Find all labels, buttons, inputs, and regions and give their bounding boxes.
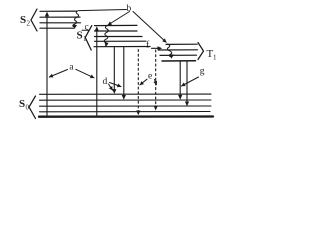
S0 label [19, 98, 30, 112]
e pointer arrow to e2 [155, 80, 157, 85]
d pointer arrow to d1 [109, 84, 113, 90]
phosphorescence arrow g2 [185, 62, 189, 107]
vibrational relaxation squiggle in S1 [104, 26, 108, 47]
svg-text:e: e [148, 72, 152, 82]
S2 brace [31, 9, 37, 31]
g label [200, 67, 205, 77]
S1 brace [85, 26, 92, 50]
T1 label [207, 48, 218, 62]
S0 brace [29, 96, 36, 119]
svg-text:S: S [19, 98, 25, 110]
a pointer arrow to arrow a2 [76, 69, 94, 78]
a label [69, 63, 74, 73]
svg-text:2: 2 [27, 20, 31, 28]
phosphorescence arrow g1 [178, 62, 182, 100]
b pointer arrow to S1 squiggle [108, 12, 130, 26]
S1 level lines [94, 25, 150, 46]
b pointer line to S2 squiggle [79, 10, 127, 11]
svg-text:d: d [103, 77, 108, 87]
S0 ground thick line [39, 115, 213, 117]
S1 label [77, 30, 88, 44]
absorption arrow a1 (S0 to S2) [45, 12, 49, 117]
svg-text:S: S [77, 30, 83, 42]
c underline dash [82, 29, 89, 31]
vibrational relaxation squiggle in T1 [167, 44, 173, 59]
svg-text:f: f [146, 40, 150, 51]
b pointer line to T1 squiggle [133, 12, 166, 43]
fluorescence arrow d1 [112, 48, 116, 94]
a pointer arrow to arrow a1 [49, 70, 67, 78]
intersystem crossing arrow f [152, 46, 163, 50]
S2 label [20, 14, 31, 28]
d label [103, 77, 108, 87]
absorption arrow a2 (S0 to S1) [95, 26, 99, 116]
svg-text:a: a [69, 63, 74, 73]
radiationless arrow e2 (dashed, T1 to S0) [154, 50, 158, 111]
radiationless arrow e1 (dashed, S1 to S0) [136, 50, 140, 116]
c label [85, 22, 89, 32]
svg-text:S: S [20, 14, 26, 26]
T1 level lines [159, 44, 198, 61]
vibrational relaxation squiggle in S2 [73, 11, 79, 29]
S2 level lines [40, 11, 81, 28]
S0 level lines [40, 94, 212, 112]
f label [146, 40, 150, 51]
b label [127, 4, 132, 14]
svg-text:g: g [200, 67, 205, 77]
e pointer arrow to e1 [140, 79, 147, 85]
svg-text:1: 1 [213, 54, 217, 62]
T1 brace [198, 43, 204, 60]
fluorescence arrow d2 [122, 48, 126, 100]
g pointer arrow to g1/g2 [182, 77, 199, 86]
d pointer arrow to d2 [110, 83, 122, 87]
e label [148, 72, 152, 82]
